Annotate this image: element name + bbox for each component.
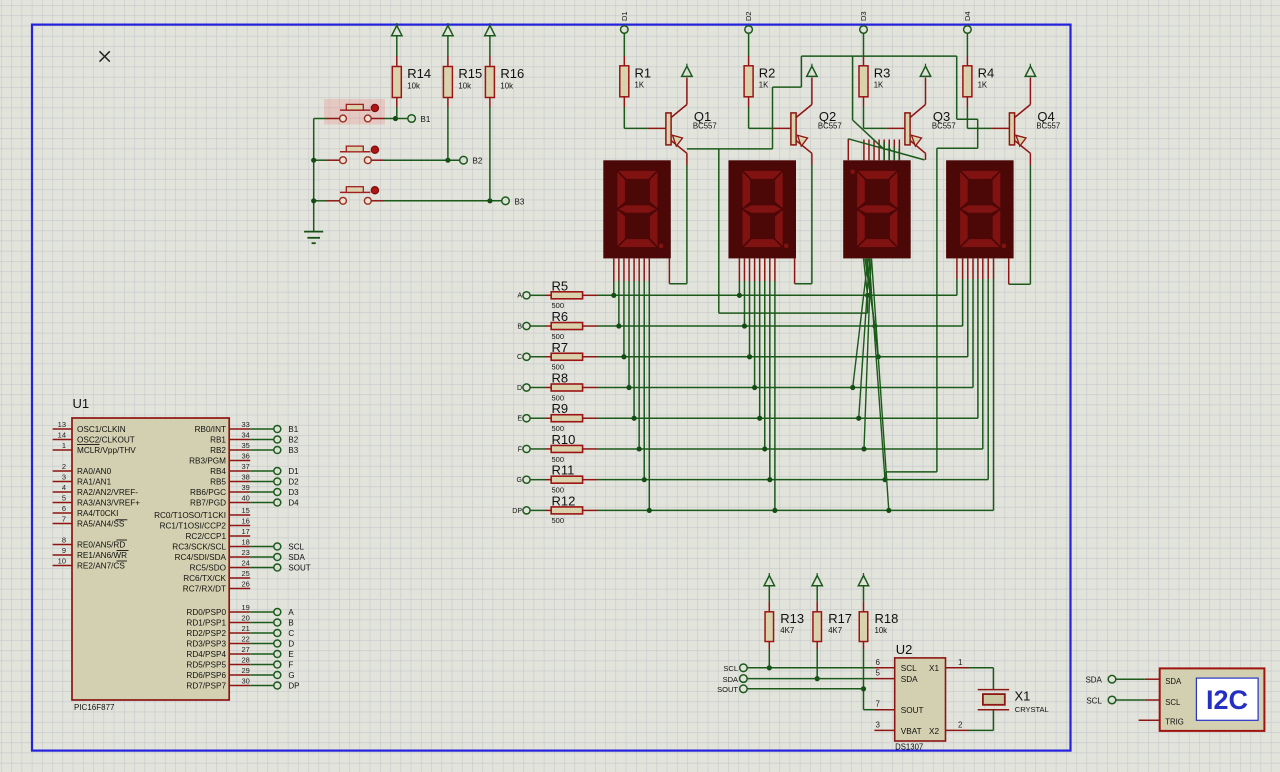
- svg-text:DS1307: DS1307: [895, 743, 923, 752]
- wire display1 pin DP column: [648, 258, 650, 281]
- svg-text:RB5: RB5: [210, 478, 226, 487]
- wire button2 left: [314, 159, 327, 161]
- svg-text:RE1/AN6/WR: RE1/AN6/WR: [77, 551, 127, 560]
- sheet border: [32, 25, 1071, 751]
- wire R1 to Q1 base: [623, 97, 625, 107]
- wire Q4 emitter to display4 common: [1029, 153, 1031, 165]
- junction R16/B3: [487, 198, 492, 203]
- junction display1 B: [616, 323, 621, 328]
- terminal D3 top: [860, 26, 868, 34]
- svg-text:R6: R6: [552, 309, 569, 324]
- svg-text:U1: U1: [73, 396, 90, 411]
- U1 pin 28 RD5/PSP5: [229, 664, 250, 666]
- terminal SOUT at U1: [274, 564, 281, 571]
- wire power to R18: [863, 586, 865, 601]
- terminal D2 top: [745, 26, 753, 34]
- svg-text:2: 2: [62, 462, 66, 471]
- 7-segment display 4: [946, 160, 1014, 258]
- wire display2 pin DP column: [774, 258, 776, 281]
- wire display1 pin A column: [613, 258, 615, 281]
- wire row C: [583, 356, 597, 358]
- junction display2 G: [767, 477, 772, 482]
- svg-text:4: 4: [62, 483, 66, 492]
- svg-text:29: 29: [242, 666, 250, 675]
- svg-text:RB1: RB1: [210, 436, 226, 445]
- origin marker X: [100, 51, 110, 61]
- junction display3 B: [872, 323, 877, 328]
- svg-text:R5: R5: [552, 278, 569, 293]
- svg-text:R12: R12: [552, 493, 576, 508]
- junction R17 SDA: [815, 676, 820, 681]
- svg-text:RB6/PGC: RB6/PGC: [190, 488, 226, 497]
- svg-text:RC2/CCP1: RC2/CCP1: [186, 532, 227, 541]
- wire net P long vertical: [936, 148, 938, 472]
- wire button bus left vertical: [313, 119, 315, 232]
- wire D to R8: [530, 386, 545, 388]
- U1 pin 3 RA1/AN1: [53, 481, 72, 483]
- svg-text:10k: 10k: [407, 81, 420, 90]
- wire power to R14: [396, 36, 398, 56]
- svg-text:D: D: [517, 385, 522, 392]
- terminal B3: [502, 197, 510, 205]
- junction display2 A: [737, 293, 742, 298]
- svg-text:10k: 10k: [458, 81, 471, 90]
- svg-text:R7: R7: [552, 340, 569, 355]
- svg-text:BC557: BC557: [1036, 122, 1060, 131]
- svg-text:RE2/AN7/CS: RE2/AN7/CS: [77, 562, 125, 571]
- svg-text:D3: D3: [288, 488, 299, 497]
- svg-text:B: B: [288, 619, 293, 628]
- svg-text:B3: B3: [288, 446, 298, 455]
- power arrow above R16: [485, 26, 495, 36]
- terminal C at U1: [274, 630, 281, 637]
- svg-text:RC4/SDI/SDA: RC4/SDI/SDA: [175, 553, 227, 562]
- svg-text:RD5/PSP5: RD5/PSP5: [186, 661, 226, 670]
- wire steep diagonal into display3 fan: [853, 120, 884, 149]
- wire display2 pin D column: [754, 258, 756, 281]
- svg-text:10k: 10k: [875, 626, 888, 635]
- terminal A row: [523, 292, 530, 299]
- terminal F row: [523, 445, 530, 452]
- svg-text:1K: 1K: [978, 81, 988, 90]
- svg-text:1K: 1K: [874, 81, 884, 90]
- wire display3 pin B diagonal: [865, 258, 875, 326]
- svg-text:RD7/PSP7: RD7/PSP7: [186, 682, 226, 691]
- wire row DP: [583, 509, 597, 511]
- svg-text:SCL: SCL: [1165, 698, 1181, 707]
- svg-text:D1: D1: [288, 467, 299, 476]
- svg-text:B3: B3: [515, 197, 525, 206]
- wire Q1 emitter to display1 common: [686, 153, 688, 165]
- svg-text:A: A: [288, 608, 294, 617]
- junction display2 B: [742, 323, 747, 328]
- wire display3 pin DP diagonal: [872, 258, 889, 510]
- junction display3 E: [856, 416, 861, 421]
- svg-text:RB3/PGM: RB3/PGM: [189, 457, 226, 466]
- junction display2 D: [752, 385, 757, 390]
- junction display2 F: [762, 446, 767, 451]
- terminal D3 at U1: [274, 489, 281, 496]
- wire SDA net: [747, 678, 874, 680]
- wire fan short horizontal: [884, 148, 891, 150]
- svg-text:13: 13: [58, 420, 66, 429]
- svg-text:7: 7: [876, 700, 881, 709]
- terminal D1 at U1: [274, 468, 281, 475]
- svg-text:DP: DP: [288, 682, 299, 691]
- U1 pin 35 RB2: [229, 449, 250, 451]
- wire display1 pin B column: [618, 258, 620, 281]
- svg-text:C: C: [288, 629, 294, 638]
- svg-text:25: 25: [242, 569, 250, 578]
- terminal D2 at U1: [274, 478, 281, 485]
- U1 pin 40 RB7/PGD: [229, 502, 250, 504]
- svg-text:G: G: [517, 477, 522, 484]
- resistor R5 500: [551, 292, 582, 299]
- svg-text:DP: DP: [512, 508, 522, 515]
- svg-text:E: E: [517, 416, 522, 423]
- wire VBAT stub: [874, 729, 894, 731]
- terminal SCL at U1: [274, 543, 281, 550]
- svg-text:SDA: SDA: [1085, 676, 1102, 685]
- junction display1 DP: [647, 508, 652, 513]
- svg-text:R18: R18: [875, 611, 899, 626]
- wire B to R6: [530, 325, 545, 327]
- junction display2 DP: [772, 508, 777, 513]
- terminal B row: [523, 322, 530, 329]
- wire C to R7: [530, 356, 545, 358]
- U1 pin 39 RB6/PGC: [229, 491, 250, 493]
- wire display4 pin DP: [993, 258, 995, 279]
- wire row E: [583, 417, 597, 419]
- svg-text:R11: R11: [552, 463, 575, 478]
- wire power to R13: [768, 586, 770, 601]
- svg-text:R13: R13: [780, 611, 804, 626]
- junction display1 E: [631, 416, 636, 421]
- wire display3 pin E diagonal: [859, 258, 870, 418]
- wire display2 pin A column: [738, 258, 740, 281]
- svg-text:R8: R8: [552, 370, 569, 385]
- U1 pin 2 RA0/AN0: [53, 470, 72, 472]
- 7-segment display 3: [843, 160, 911, 258]
- svg-text:D2: D2: [288, 478, 299, 487]
- svg-text:R14: R14: [407, 66, 431, 81]
- power arrow at Q4: [1025, 66, 1035, 76]
- terminal SCL at I2C: [1108, 696, 1116, 704]
- power arrow at Q1: [682, 66, 692, 76]
- wire display3 common diagonal to Q3: [848, 139, 924, 160]
- wire button1 left: [314, 118, 327, 120]
- wire display4 pin A: [956, 258, 958, 279]
- wire net P right jog down 2: [977, 119, 979, 148]
- svg-text:23: 23: [242, 548, 250, 557]
- U1 pin 7 RA5/AN4/SS: [53, 523, 72, 525]
- wire row D: [583, 386, 597, 388]
- wire R14 bottom: [396, 98, 398, 108]
- svg-text:R16: R16: [500, 66, 524, 81]
- svg-text:RC5/SDO: RC5/SDO: [190, 564, 226, 573]
- wire power to R16: [489, 36, 491, 56]
- wire net P horizontal near Q1: [687, 148, 773, 150]
- svg-text:1K: 1K: [759, 81, 769, 90]
- svg-text:D2: D2: [744, 11, 753, 21]
- U1 pin 6 RA4/T0CKI: [53, 512, 72, 514]
- push button B2: [340, 151, 370, 153]
- junction display3 F: [861, 446, 866, 451]
- wire display1 pin F column: [638, 258, 640, 281]
- svg-text:D3: D3: [859, 11, 868, 21]
- U1 pin 19 RD0/PSP0: [229, 611, 250, 613]
- wire net P branch down to fan: [852, 56, 854, 120]
- terminal E at U1: [274, 651, 281, 658]
- svg-text:RE0/AN5/RD: RE0/AN5/RD: [77, 541, 125, 550]
- push button B3: [340, 191, 370, 193]
- svg-text:SDA: SDA: [288, 553, 305, 562]
- svg-text:39: 39: [242, 483, 250, 492]
- U1 pin 4 RA2/AN2/VREF-: [53, 491, 72, 493]
- svg-text:27: 27: [242, 645, 250, 654]
- junction bus B3: [311, 198, 316, 203]
- svg-text:RC7/RX/DT: RC7/RX/DT: [183, 585, 226, 594]
- wire display1 pin D column: [628, 258, 630, 281]
- U1 pin 15 RC0/T1OSO/T1CKI: [229, 514, 250, 516]
- junction display2 E: [757, 416, 762, 421]
- power arrow above R14: [392, 26, 402, 36]
- svg-text:RD3/PSP3: RD3/PSP3: [186, 640, 226, 649]
- svg-text:33: 33: [242, 420, 250, 429]
- crystal X1: [978, 690, 1009, 710]
- wire R17 to SDA net: [816, 642, 818, 650]
- transistor Q2 BC557: [791, 113, 796, 145]
- wire U2 X2 pin: [946, 729, 969, 731]
- svg-text:500: 500: [552, 516, 565, 525]
- U1 pin 30 RD7/PSP7: [229, 685, 250, 687]
- ground: [304, 232, 323, 244]
- terminal SDA at U1: [274, 554, 281, 561]
- wire button2 right to node B2: [371, 159, 384, 161]
- wire button1 right to node B1: [371, 118, 384, 120]
- U1 pin 18 RC3/SCK/SCL: [229, 546, 250, 548]
- svg-text:R2: R2: [759, 66, 776, 81]
- wire SOUT net: [747, 688, 863, 690]
- wire G to R11: [530, 479, 545, 481]
- svg-text:OSC1/CLKIN: OSC1/CLKIN: [77, 425, 126, 434]
- wire display3 pin F diagonal: [864, 258, 871, 449]
- svg-text:4K7: 4K7: [828, 626, 842, 635]
- U1 pin 1 MCLR/Vpp/THV: [53, 449, 72, 451]
- junction display1 G: [642, 477, 647, 482]
- svg-text:D4: D4: [963, 11, 972, 21]
- IC U1 PIC16F877: [72, 418, 229, 700]
- svg-text:R3: R3: [874, 66, 891, 81]
- resistor R13 4K7: [765, 612, 774, 642]
- junction R15/B2: [445, 158, 450, 163]
- resistor R7 500: [551, 353, 582, 360]
- junction bus B2: [311, 158, 316, 163]
- terminal B3 at U1: [274, 447, 281, 454]
- wire fan drops: [883, 142, 885, 160]
- power arrow above R13: [764, 576, 774, 586]
- wire R15 bottom: [447, 98, 449, 108]
- svg-text:6: 6: [876, 658, 881, 667]
- terminal D row: [523, 384, 530, 391]
- svg-text:20: 20: [242, 613, 250, 622]
- terminal DP row: [523, 507, 530, 514]
- svg-text:SDA: SDA: [901, 675, 918, 684]
- terminal D4 at U1: [274, 499, 281, 506]
- resistor R8 500: [551, 384, 582, 391]
- terminal B1 at U1: [274, 426, 281, 433]
- svg-text:5: 5: [876, 669, 881, 678]
- resistor R9 500: [551, 415, 582, 422]
- svg-text:D1: D1: [620, 11, 629, 21]
- junction display1 D: [626, 385, 631, 390]
- svg-text:B: B: [517, 323, 522, 330]
- svg-text:RC0/T1OSO/T1CKI: RC0/T1OSO/T1CKI: [154, 511, 226, 520]
- svg-text:38: 38: [242, 472, 250, 481]
- svg-text:7: 7: [62, 514, 66, 523]
- wire R3 to Q3 base: [863, 97, 865, 107]
- resistor R3 1K: [859, 66, 868, 97]
- svg-text:RC3/SCK/SCL: RC3/SCK/SCL: [172, 543, 226, 552]
- svg-text:B1: B1: [288, 425, 298, 434]
- svg-text:SOUT: SOUT: [717, 685, 738, 694]
- svg-text:4K7: 4K7: [780, 626, 794, 635]
- svg-text:RB2: RB2: [210, 446, 226, 455]
- junction display3 C: [876, 354, 881, 359]
- resistor R14 10k: [392, 67, 401, 98]
- wire net P right jog down: [956, 56, 958, 119]
- wire SCL net: [747, 667, 874, 669]
- terminal SOUT: [740, 685, 748, 693]
- svg-text:RB0/INT: RB0/INT: [195, 425, 226, 434]
- wire R18 down: [863, 642, 865, 650]
- terminal E row: [523, 415, 530, 422]
- wire net P right jog h: [957, 118, 978, 120]
- svg-text:RA4/T0CKI: RA4/T0CKI: [77, 509, 118, 518]
- push button B1: [324, 99, 385, 125]
- resistor R17 4K7: [813, 612, 822, 642]
- svg-text:I2C: I2C: [1206, 685, 1248, 715]
- wire display3 pin D diagonal: [853, 258, 868, 387]
- terminal SDA: [740, 675, 748, 683]
- svg-text:36: 36: [242, 451, 250, 460]
- svg-text:B2: B2: [288, 436, 298, 445]
- wire display1 pin C column: [623, 258, 625, 281]
- wire R2 to Q2 base: [748, 97, 750, 107]
- junction display3 DP: [886, 508, 891, 513]
- terminal B1: [408, 115, 416, 123]
- svg-text:X1: X1: [1015, 689, 1031, 704]
- svg-text:10: 10: [58, 556, 66, 565]
- svg-text:28: 28: [242, 655, 250, 664]
- IC U2 DS1307: [895, 658, 946, 741]
- wire row F: [583, 448, 597, 450]
- wire display2 pin B column: [743, 258, 745, 281]
- wire power to R17: [816, 586, 818, 601]
- wire button3 right to node B3: [371, 200, 384, 202]
- svg-text:1K: 1K: [635, 81, 645, 90]
- transistor Q4 BC557: [1009, 113, 1014, 145]
- U1 pin 34 RB1: [229, 439, 250, 441]
- svg-text:RD1/PSP1: RD1/PSP1: [186, 619, 226, 628]
- svg-text:SOUT: SOUT: [288, 564, 310, 573]
- U1 pin 36 RB3/PGM: [229, 460, 250, 462]
- junction R14/B1: [393, 116, 398, 121]
- svg-text:CRYSTAL: CRYSTAL: [1015, 705, 1049, 714]
- svg-text:C: C: [517, 354, 522, 361]
- terminal D at U1: [274, 640, 281, 647]
- svg-text:26: 26: [242, 579, 250, 588]
- svg-text:B1: B1: [421, 115, 431, 124]
- wire net P top horizontal: [801, 55, 956, 57]
- svg-text:SCL: SCL: [1086, 696, 1102, 705]
- terminal G row: [523, 476, 530, 483]
- svg-text:F: F: [518, 446, 522, 453]
- wire A to R5: [530, 294, 545, 296]
- svg-text:R17: R17: [828, 611, 852, 626]
- wire row A: [583, 294, 597, 296]
- junction display3 A: [865, 293, 870, 298]
- pin name decorations: [77, 444, 129, 561]
- wire display3 pin G diagonal: [869, 258, 885, 479]
- terminal G at U1: [274, 672, 281, 679]
- svg-text:D: D: [288, 640, 294, 649]
- svg-text:RA3/AN3/VREF+: RA3/AN3/VREF+: [77, 499, 140, 508]
- power arrow above R17: [812, 576, 822, 586]
- U1 pin 33 RB0/INT: [229, 428, 250, 430]
- svg-text:5: 5: [62, 493, 66, 502]
- wire net P bottom h: [886, 471, 937, 473]
- svg-text:VBAT: VBAT: [901, 727, 922, 736]
- svg-text:17: 17: [242, 527, 250, 536]
- resistor R6 500: [551, 323, 582, 330]
- U1 pin 10 RE2/AN7/CS: [53, 565, 72, 567]
- wire R13 to SCL net: [768, 642, 770, 650]
- power arrow at Q3: [920, 66, 930, 76]
- svg-text:TRIG: TRIG: [1165, 717, 1184, 726]
- svg-text:8: 8: [62, 535, 66, 544]
- wire I2C SDA: [1145, 678, 1160, 680]
- U1 pin 5 RA3/AN3/VREF+: [53, 502, 72, 504]
- resistor R1 1K: [620, 66, 629, 97]
- svg-text:A: A: [517, 293, 522, 300]
- svg-text:1: 1: [958, 658, 963, 667]
- display3 top pin stubs: [848, 139, 899, 161]
- U1 pin 25 RC6/TX/CK: [229, 577, 250, 579]
- svg-text:BC557: BC557: [932, 122, 956, 131]
- svg-text:B2: B2: [473, 157, 483, 166]
- resistor R18 10k: [859, 612, 868, 642]
- wire D3 to R3: [863, 33, 865, 56]
- wire display2 pin C column: [749, 258, 751, 281]
- svg-text:PIC16F877: PIC16F877: [74, 703, 115, 712]
- svg-text:D4: D4: [288, 499, 299, 508]
- resistor R12 500: [551, 507, 582, 514]
- terminal B at U1: [274, 619, 281, 626]
- terminal D1 top: [621, 26, 629, 34]
- svg-text:SDA: SDA: [1165, 677, 1182, 686]
- svg-text:16: 16: [242, 516, 250, 525]
- wire D4 to R4: [966, 33, 968, 56]
- wire DP to R12: [530, 509, 545, 511]
- U1 pin 38 RB5: [229, 481, 250, 483]
- svg-text:RD4/PSP4: RD4/PSP4: [186, 650, 226, 659]
- wire net P vertical: [718, 149, 720, 313]
- svg-text:G: G: [288, 671, 294, 680]
- svg-text:RD2/PSP2: RD2/PSP2: [186, 629, 226, 638]
- svg-text:37: 37: [242, 462, 250, 471]
- U1 pin 26 RC7/RX/DT: [229, 588, 250, 590]
